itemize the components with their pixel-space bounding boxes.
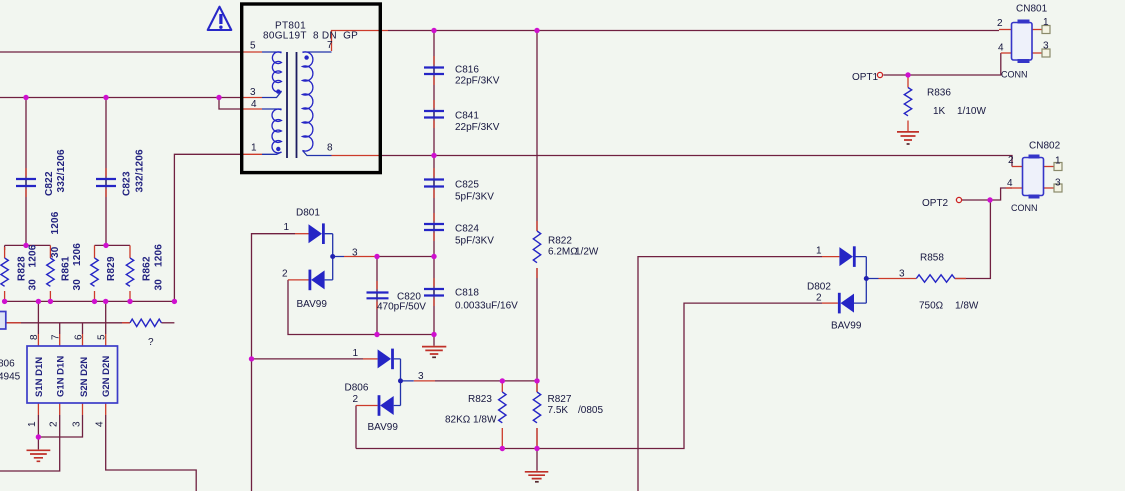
NAVY <box>26 52 879 406</box>
wire question resistor right link <box>161 322 174 324</box>
wire top rail pin7 to CN801 pin2 <box>388 30 999 32</box>
pin stub D801 pin1 <box>295 233 309 235</box>
svg-text:3: 3 <box>250 87 256 98</box>
svg-text:R862: R862 <box>142 256 153 281</box>
junction dot D801 pin3 C820 <box>374 254 379 259</box>
IC U806 partial neighbour box at left edge <box>0 312 6 330</box>
wire D806 pin3 row <box>435 380 537 382</box>
transformer pin7 inner lead <box>303 51 332 53</box>
OPT1 open circle <box>877 72 882 77</box>
wire C823 vertical <box>105 98 107 246</box>
diode D801 top <box>309 223 325 244</box>
pin stub C820 <box>376 281 378 309</box>
capacitor C816 plates <box>424 68 444 75</box>
junction dot bottom row R823 <box>500 446 505 451</box>
wire R822 vertical top <box>536 31 538 232</box>
node dot D806 common cathode <box>398 378 403 383</box>
capacitor C818 plates <box>424 289 444 296</box>
svg-text:1: 1 <box>284 222 290 233</box>
junction dot OPT1 R836 <box>905 72 910 77</box>
diode D806 bottom <box>378 395 394 416</box>
wire pin7 drop from row C <box>59 323 61 334</box>
junction dot C823 bottom <box>103 243 108 248</box>
svg-text:?: ? <box>148 337 154 348</box>
svg-text:1: 1 <box>816 246 822 257</box>
transformer pin5 inner lead <box>262 51 282 53</box>
svg-text:D806: D806 <box>345 383 369 394</box>
connector CN802 body <box>1023 158 1044 196</box>
junction dot bottom row R827 ground <box>534 446 539 451</box>
svg-text:6.2MΩ1/2W: 6.2MΩ1/2W <box>548 247 599 258</box>
pin stub CN802 pin1 <box>1044 166 1054 168</box>
pin stub transformer pin5 <box>242 51 262 53</box>
svg-text:80GL19T 8 DN GP: 80GL19T 8 DN GP <box>263 31 358 42</box>
pin stub R822 <box>536 221 538 278</box>
junction dot C822 bottom <box>23 243 28 248</box>
svg-text:806: 806 <box>0 359 15 370</box>
pin stub transformer pin3 <box>242 97 262 99</box>
pin stub D806 pin1 <box>363 358 378 360</box>
ground under IC pin1 <box>37 437 39 449</box>
capacitor C824 plates <box>424 224 444 230</box>
wire C820 vertical <box>376 257 378 335</box>
node dot D802 common cathode <box>864 276 869 281</box>
wire D801 pin1 left vertical <box>252 234 296 491</box>
wire D801 pin3 to C818 column <box>377 256 434 258</box>
wire OPT2 row to CN802 pin4 <box>962 188 1013 200</box>
transformer PT801 core <box>287 52 297 158</box>
svg-text:G1N D1N: G1N D1N <box>56 356 67 397</box>
pin stub transformer pin7 <box>332 31 389 52</box>
resistor R823 zigzag <box>499 392 506 423</box>
svg-text:C823: C823 <box>122 171 133 196</box>
svg-text:R861: R861 <box>61 256 72 281</box>
connector CN801 top tab <box>1018 20 1030 24</box>
svg-text:S1N D1N: S1N D1N <box>34 357 45 397</box>
svg-text:1: 1 <box>353 348 359 359</box>
C816 mid segment <box>433 68 435 75</box>
wire IC pin1 down <box>37 415 39 437</box>
wire IC pin3 down to pin1 node <box>38 415 82 437</box>
connector CN802 top tab <box>1029 155 1040 159</box>
wire pin5 drop from row B <box>105 301 107 334</box>
ground under R827 <box>536 449 538 471</box>
svg-text:5pF/3KV: 5pF/3KV <box>455 236 494 247</box>
svg-text:R823: R823 <box>468 394 492 405</box>
svg-text:4: 4 <box>251 99 257 110</box>
pin stub CN801 pin4 <box>1001 52 1012 54</box>
pin stub transformer pin8 <box>332 155 382 157</box>
pin stub CN801 pin2 <box>999 29 1012 31</box>
pin stub transformer pin4 <box>242 108 262 110</box>
wire R858 to OPT2 vertical <box>955 200 991 279</box>
pin stub question-resistor right <box>122 322 130 324</box>
wire R822 to R827 vertical <box>536 268 538 392</box>
junction dot row B R862 <box>127 299 132 304</box>
pin stub R836 bottom <box>907 121 909 132</box>
svg-text:4: 4 <box>998 43 1004 54</box>
connector CN802 bottom tab <box>1029 195 1040 199</box>
svg-text:22pF/3KV: 22pF/3KV <box>455 75 500 86</box>
resistor R828 zigzag <box>1 258 8 286</box>
svg-text:3: 3 <box>352 248 358 259</box>
svg-text:7: 7 <box>327 40 333 51</box>
wire transformer pin1 to resistor row <box>174 154 241 301</box>
diode D802 bottom <box>838 293 854 314</box>
pin stub D802 pin1 <box>822 256 839 258</box>
wire C816 chain vertical <box>433 31 435 335</box>
pin stub CN802 pin4 <box>1010 187 1023 189</box>
junction dot OPT2 <box>987 197 992 202</box>
warning triangle <box>208 7 232 30</box>
D801 cathode join <box>325 234 344 280</box>
connector CN801 pad pin3 <box>1042 49 1050 57</box>
resistor R858 zigzag <box>916 275 955 282</box>
resistor R822 zigzag <box>533 231 540 263</box>
svg-text:CONN: CONN <box>1001 70 1028 80</box>
wire pin6 drop from row C <box>82 323 84 334</box>
wire D801 pin2 down and right <box>288 280 434 335</box>
junction dot D806 pin3 R827 <box>534 378 539 383</box>
svg-text:2: 2 <box>353 394 359 405</box>
transformer PT801 primary lower winding <box>272 109 281 153</box>
connector CN802 pad pin3 <box>1054 184 1062 192</box>
wire net pin3 second-left <box>0 97 242 99</box>
wire IC pin4 down right to bottom edge <box>106 415 197 491</box>
pin stub CN801 pin3 <box>1032 52 1042 54</box>
ground under C818 <box>433 335 435 346</box>
junction dot C818 bottom ground <box>431 332 436 337</box>
svg-text:R829: R829 <box>106 256 117 281</box>
svg-text:R822: R822 <box>548 236 572 247</box>
svg-text:C816: C816 <box>455 64 479 75</box>
C824 mid segment <box>433 224 435 230</box>
svg-text:CONN: CONN <box>1011 203 1038 213</box>
resistor R829 zigzag <box>91 258 98 286</box>
wire D806 pin2 down <box>355 406 357 449</box>
wire pin8 rail to CN802 pin2 <box>381 156 1012 167</box>
wire pin8 drop from row B <box>37 301 39 334</box>
junction dot D801 pin3 C818 <box>431 254 436 259</box>
svg-text:7: 7 <box>51 334 62 340</box>
C823 mid segment <box>105 179 107 186</box>
svg-text:5: 5 <box>97 334 108 340</box>
svg-text:30: 30 <box>28 279 39 291</box>
svg-text:S2N D2N: S2N D2N <box>79 357 90 397</box>
pin stub D801 pin2 <box>288 279 309 281</box>
svg-text:8: 8 <box>327 142 333 153</box>
capacitor C820 plates <box>367 293 389 299</box>
svg-text:82KΩ 1/8W: 82KΩ 1/8W <box>445 415 497 426</box>
transformer pin1 inner lead <box>262 152 282 154</box>
wire D806 pin1 from left vertical <box>252 358 364 360</box>
svg-text:2: 2 <box>816 293 822 304</box>
pin stub R858 right <box>955 278 966 280</box>
transformer PT801 primary upper winding <box>272 52 281 92</box>
pin stub D802 pin3 <box>879 278 917 280</box>
svg-text:1206: 1206 <box>72 243 83 266</box>
junction dot pin4 branch <box>216 95 221 100</box>
svg-text:C841: C841 <box>455 111 479 122</box>
diode D802 top <box>839 246 855 267</box>
resistor R862 zigzag <box>126 258 133 286</box>
svg-text:2: 2 <box>282 269 288 280</box>
svg-text:R858: R858 <box>920 253 944 264</box>
svg-text:4: 4 <box>95 421 106 427</box>
svg-text:1K1/10W: 1K1/10W <box>933 106 986 117</box>
junction dot row B pin8 <box>36 299 41 304</box>
svg-text:1: 1 <box>1043 17 1049 28</box>
svg-text:2: 2 <box>1008 155 1014 166</box>
svg-text:6: 6 <box>73 334 84 340</box>
wire branch to pin4 <box>219 98 242 110</box>
connector CN802 pad pin1 <box>1054 163 1062 171</box>
wire resistor row B bottom <box>5 300 175 302</box>
pin stub D801 pin3 <box>344 256 377 258</box>
svg-text:3: 3 <box>418 371 424 382</box>
svg-text:1: 1 <box>1055 156 1061 167</box>
svg-text:1: 1 <box>27 421 38 427</box>
transformer pin4 inner lead <box>262 108 282 110</box>
wire C822 vertical <box>25 98 27 246</box>
junction dot C823 top <box>103 95 108 100</box>
pin stub CN802 pin4 red part <box>1006 187 1010 189</box>
wire R827 bottom to ground node <box>536 428 538 449</box>
svg-text:OPT2: OPT2 <box>922 198 949 209</box>
junction dot D806 pin1 <box>249 356 254 361</box>
svg-text:BAV99: BAV99 <box>368 422 399 433</box>
C841 mid segment <box>433 111 435 118</box>
svg-text:1206: 1206 <box>154 244 165 267</box>
svg-text:0.0033uF/16V: 0.0033uF/16V <box>455 301 518 312</box>
pin stub C823 <box>105 168 107 197</box>
connector CN801 pad pin1 <box>1042 26 1050 34</box>
wire gate row C <box>6 322 130 324</box>
svg-text:C825: C825 <box>455 180 479 191</box>
svg-text:D802: D802 <box>807 282 831 293</box>
junction dot C820 bottom <box>374 332 379 337</box>
svg-text:5: 5 <box>250 41 256 52</box>
junction dot top rail C816 <box>431 28 436 33</box>
pin stub C825 <box>433 168 435 198</box>
pin stub C818 <box>433 278 435 306</box>
svg-text:G2N D2N: G2N D2N <box>101 356 112 397</box>
svg-text:C824: C824 <box>455 224 479 235</box>
junction dot row B R861 <box>48 299 53 304</box>
svg-text:1206: 1206 <box>28 244 39 267</box>
node dot D801 common cathode <box>330 254 335 259</box>
capacitor C823 plates <box>96 179 116 186</box>
svg-text:3: 3 <box>899 269 905 280</box>
GROUNDS <box>27 132 920 482</box>
pin stub R827 <box>536 381 538 449</box>
pin stub C841 <box>433 100 435 128</box>
transformer pin8 inner lead <box>303 151 332 156</box>
transformer PT801 box <box>242 4 381 173</box>
pin stub R829 <box>94 245 96 301</box>
pin stub C822 <box>25 168 27 197</box>
ground under R836 <box>897 132 919 140</box>
pin stub C816 <box>433 56 435 85</box>
transformer PT801 secondary winding <box>303 52 313 151</box>
wire net pin5 top-left <box>0 51 242 53</box>
svg-text:3: 3 <box>1055 178 1061 189</box>
pin stub IC bottom pins <box>38 403 105 415</box>
C818 mid segment <box>433 289 435 296</box>
D806 cathode join <box>394 359 414 406</box>
svg-text:30: 30 <box>154 279 165 291</box>
pin stub CN802 pin2 <box>1012 166 1023 168</box>
pin stub CN802 pin3 <box>1044 187 1054 189</box>
svg-text:R827: R827 <box>548 394 572 405</box>
wire resistor row A left <box>5 244 51 246</box>
D802 cathode join <box>854 257 879 304</box>
capacitor C822 plates <box>16 179 36 186</box>
wire R828 left drop <box>4 245 6 250</box>
svg-text:3: 3 <box>71 421 82 427</box>
svg-text:8: 8 <box>29 334 40 340</box>
junction dot top rail R822 <box>534 28 539 33</box>
diode D801 bottom <box>309 270 325 291</box>
resistor R861 zigzag <box>47 258 54 286</box>
svg-text:470pF/50V: 470pF/50V <box>377 302 426 313</box>
svg-text:BAV99: BAV99 <box>297 299 328 310</box>
svg-text:30: 30 <box>50 246 61 258</box>
connector CN801 bottom tab <box>1018 59 1030 63</box>
svg-text:3: 3 <box>1043 41 1049 52</box>
svg-text:C822: C822 <box>44 171 55 196</box>
junction dot row B pin5 <box>103 299 108 304</box>
C822 mid segment <box>25 179 27 186</box>
resistor R836 zigzag <box>904 88 911 116</box>
junction dot row B R828 <box>2 299 7 304</box>
junction dot C822 top <box>23 95 28 100</box>
connector CN801 body <box>1012 23 1033 61</box>
OPT2 open circle <box>956 197 961 202</box>
pin stub R862 <box>129 245 131 301</box>
svg-text:2: 2 <box>997 18 1003 29</box>
junction dot row B corner <box>172 299 177 304</box>
transformer pin3 inner lead <box>262 91 282 97</box>
capacitor C825 plates <box>424 180 444 187</box>
diode D806 top <box>378 349 394 370</box>
svg-text:OPT1: OPT1 <box>852 72 879 83</box>
svg-text:R828: R828 <box>17 256 28 281</box>
svg-text:1: 1 <box>251 143 257 154</box>
resistor R827 zigzag <box>533 392 540 423</box>
transformer polarity dot pin7 <box>304 55 308 59</box>
svg-text:C818: C818 <box>455 288 479 299</box>
svg-text:BAV99: BAV99 <box>831 321 862 332</box>
resistor question zigzag <box>130 319 161 326</box>
pin stub D806 pin3 <box>414 380 435 382</box>
junction dot D806 pin3 R823 <box>500 378 505 383</box>
svg-text:332/1206: 332/1206 <box>135 149 146 193</box>
svg-text:30: 30 <box>72 279 83 291</box>
C820 mid segment <box>376 292 378 299</box>
svg-text:332/1206: 332/1206 <box>56 149 67 193</box>
pin stub R828 <box>4 247 6 301</box>
transformer polarity dot pin1 <box>276 147 280 151</box>
wire D802 pin1 net <box>638 257 822 491</box>
IC U806 box <box>27 346 118 403</box>
capacitor C841 plates <box>424 111 444 118</box>
svg-text:5pF/3KV: 5pF/3KV <box>455 192 494 203</box>
pin stub R823 <box>501 381 503 449</box>
pin stub CN801 pin1 <box>1032 29 1042 31</box>
junction dot IC pin1 ground <box>36 434 41 439</box>
pin stub question-resistor left <box>6 322 21 324</box>
svg-text:D801: D801 <box>296 208 320 219</box>
svg-text:CN801: CN801 <box>1016 4 1048 15</box>
svg-text:22pF/3KV: 22pF/3KV <box>455 122 500 133</box>
STUBS <box>5 30 1054 449</box>
transformer polarity dot pin3 <box>276 89 280 93</box>
pin stub D806 pin2 <box>356 405 378 407</box>
svg-text:R836: R836 <box>927 88 951 99</box>
svg-text:1206: 1206 <box>50 211 61 234</box>
wire bottom row to D802 pin2 <box>356 303 822 448</box>
junction dot pin8 rail C841 <box>431 153 436 158</box>
pin stub transformer pin1 <box>242 153 262 155</box>
wire OPT1 row to CN801 pin4 <box>884 53 1001 75</box>
svg-text:4: 4 <box>1007 178 1013 189</box>
svg-text:2: 2 <box>49 421 60 427</box>
pin stub R861 <box>49 245 51 301</box>
pin stub IC top pins <box>38 334 105 346</box>
svg-text:4945: 4945 <box>0 372 21 383</box>
wire IC pin2 down to left edge <box>0 415 60 471</box>
pin stub C824 <box>433 213 435 241</box>
wire resistor row A right <box>95 244 131 246</box>
C825 mid segment <box>433 180 435 187</box>
pin stub R836 top <box>907 75 909 88</box>
junction dot row B R829 <box>92 299 97 304</box>
svg-text:CN802: CN802 <box>1029 141 1061 152</box>
pin stub D802 pin2 <box>822 302 838 304</box>
